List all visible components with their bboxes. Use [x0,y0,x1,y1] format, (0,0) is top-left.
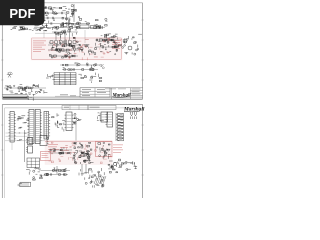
svg-text:PDF: PDF [9,6,35,21]
